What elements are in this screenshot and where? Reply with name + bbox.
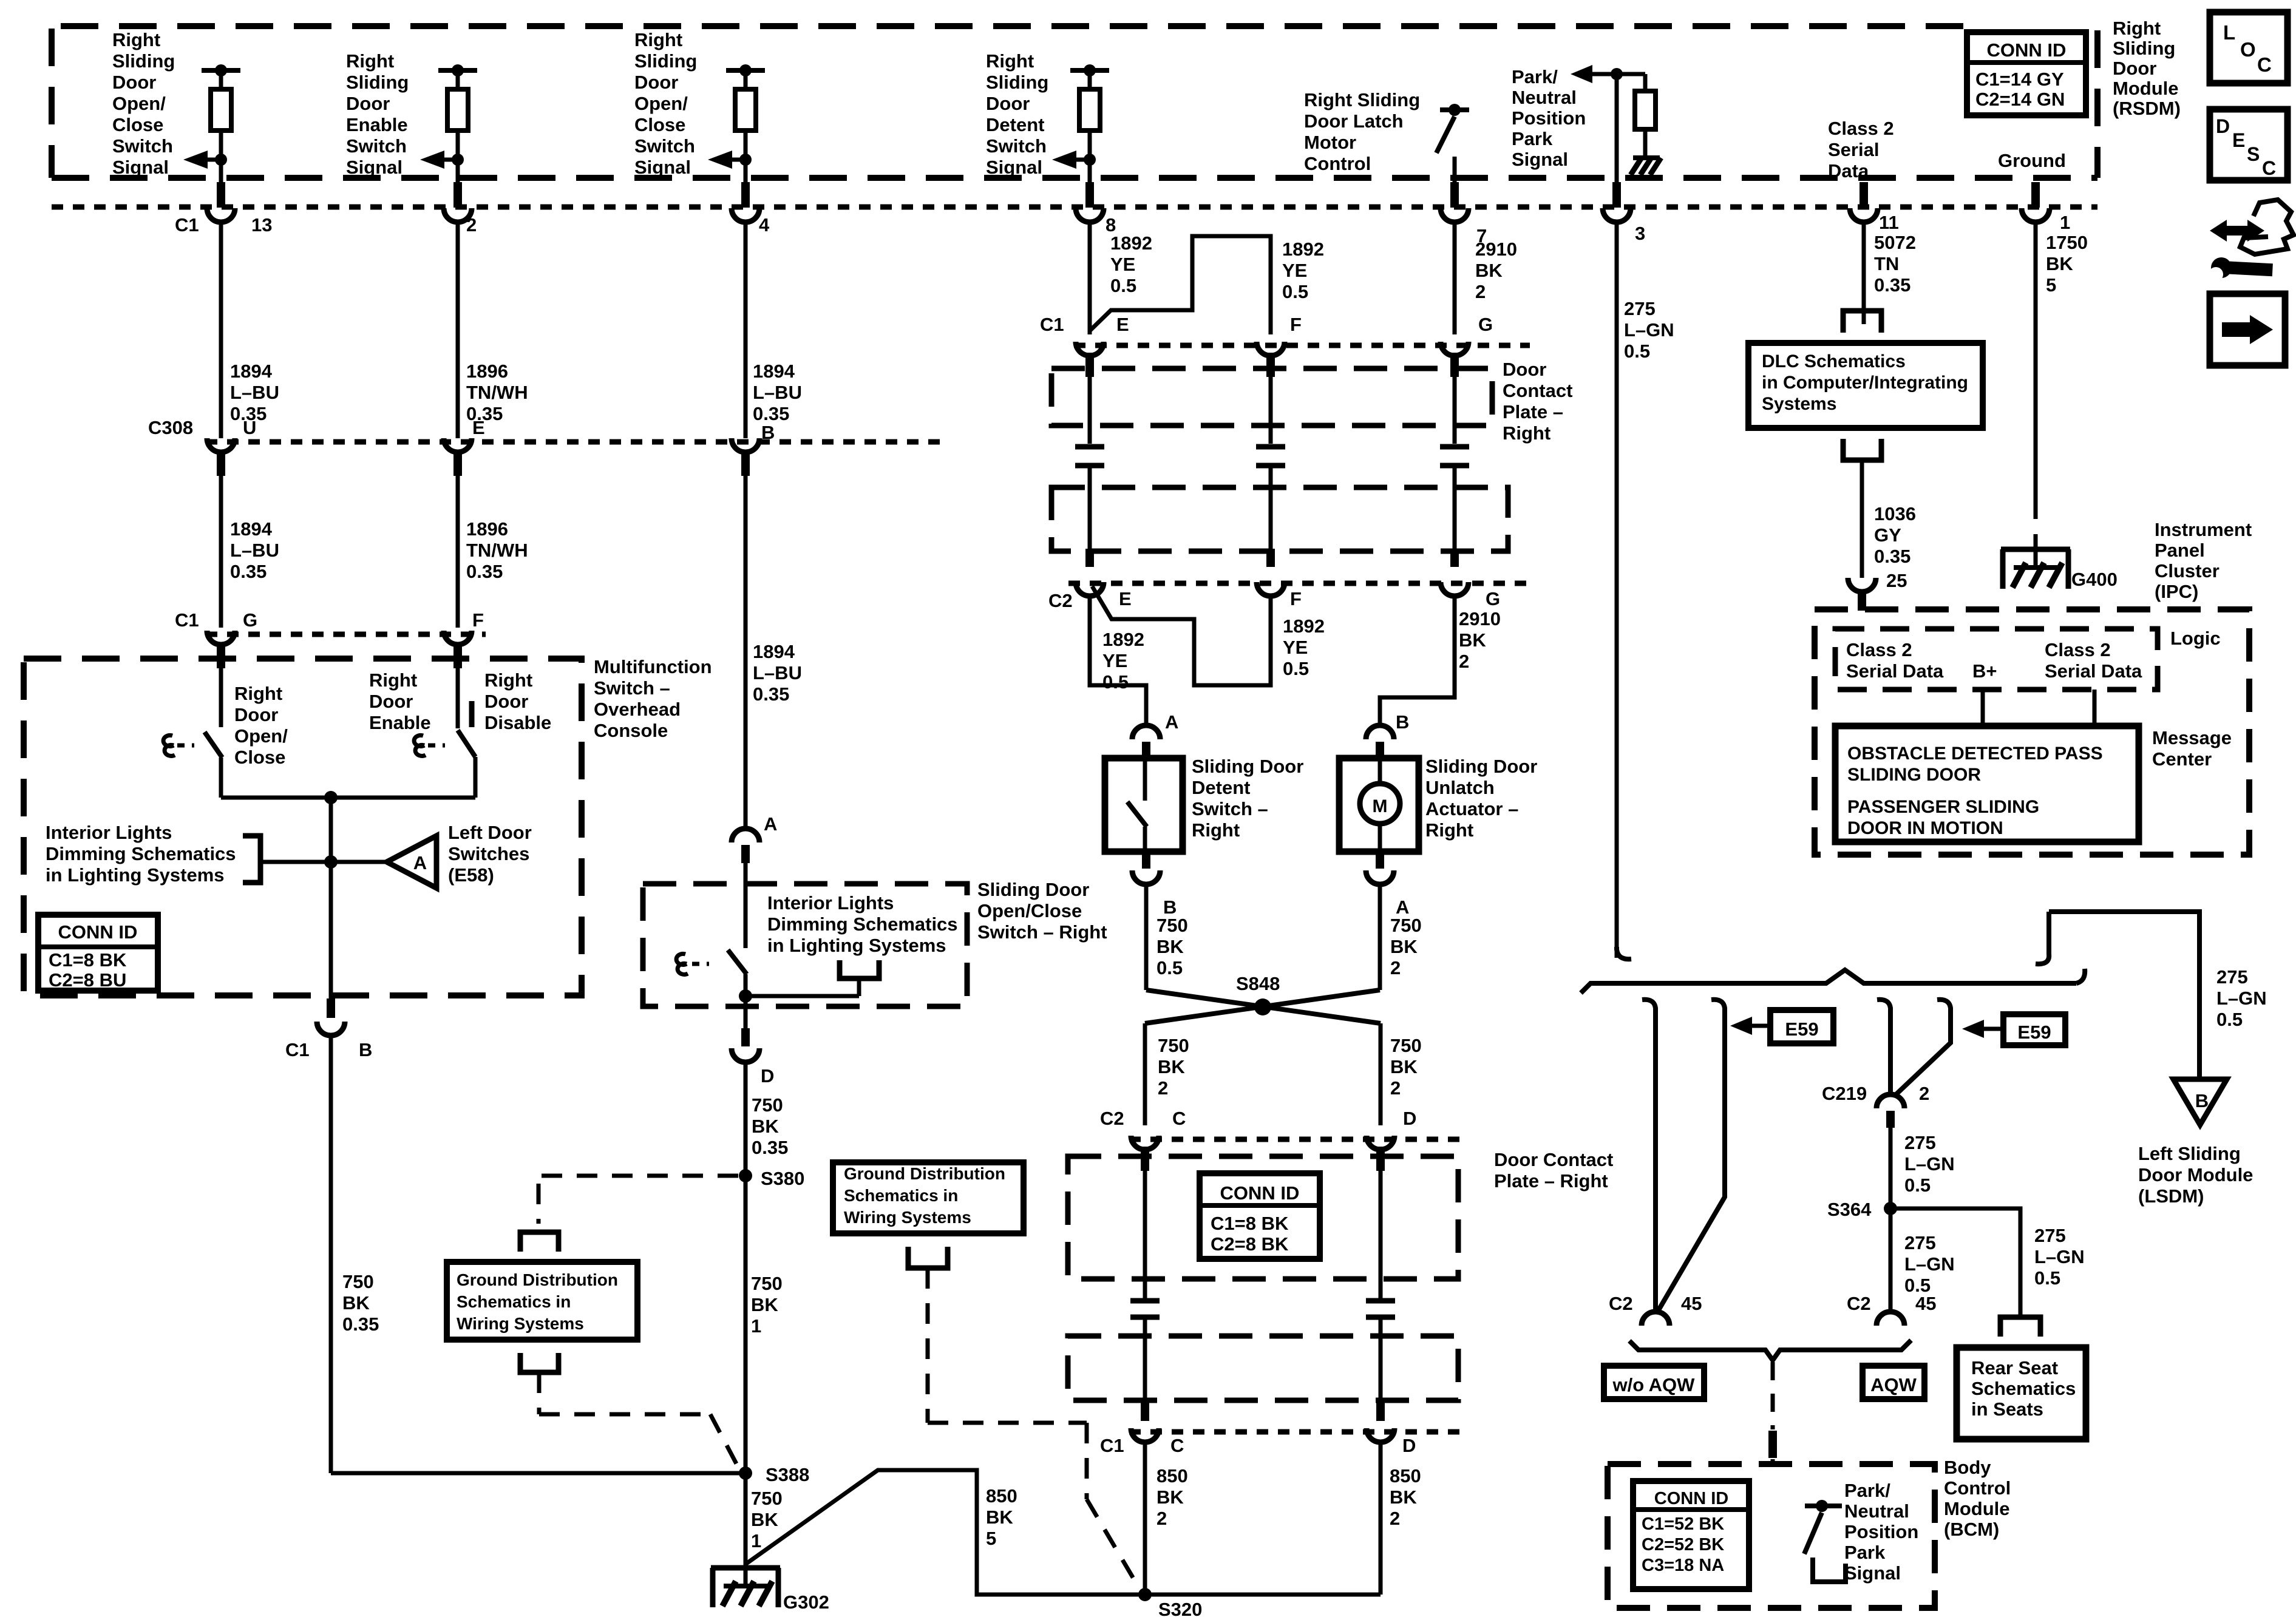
interior dimming switch inside — [728, 950, 747, 974]
svg-text:750: 750 — [1390, 1035, 1422, 1056]
svg-text:Enable: Enable — [369, 712, 431, 733]
svg-text:0.35: 0.35 — [342, 1314, 379, 1335]
svg-text:L: L — [2223, 21, 2235, 44]
resistor unit: Right Sliding Door Enable Switch Signal (pin 2) — [438, 68, 477, 73]
svg-text:0.35: 0.35 — [230, 561, 267, 582]
DESC icon box — [2210, 109, 2288, 180]
svg-text:BK: BK — [1390, 1486, 1417, 1508]
C1 connector F — [1257, 342, 1285, 356]
hand/wrench service icon — [2210, 220, 2264, 242]
Instrument Panel Cluster dashed box — [1815, 609, 2249, 855]
svg-text:Switch: Switch — [986, 135, 1047, 157]
svg-text:0.35: 0.35 — [753, 403, 789, 424]
wire 750 BK 2 — [1378, 884, 1382, 990]
svg-text:4: 4 — [759, 214, 770, 236]
svg-text:A: A — [764, 813, 777, 835]
svg-text:L–GN: L–GN — [1904, 1253, 1955, 1275]
svg-text:Close: Close — [234, 747, 285, 768]
svg-text:275: 275 — [1624, 298, 1656, 319]
svg-text:Detent: Detent — [1192, 777, 1250, 798]
C2 connector C — [1131, 1136, 1159, 1150]
wire 750 BK 0.35 down-left — [329, 1036, 333, 1473]
svg-text:BK: BK — [751, 1509, 778, 1530]
connector row C2 dotted — [1068, 581, 1530, 586]
svg-text:Right: Right — [1503, 422, 1550, 444]
svg-text:0.5: 0.5 — [1624, 341, 1650, 362]
svg-text:G302: G302 — [783, 1592, 829, 1613]
svg-text:Open/: Open/ — [112, 93, 166, 114]
svg-text:850: 850 — [986, 1485, 1017, 1507]
E59 box left — [1770, 1010, 1833, 1043]
C2/45 connector right — [1877, 1312, 1904, 1326]
C308 connector B — [732, 438, 759, 452]
svg-text:Interior Lights: Interior Lights — [46, 822, 172, 843]
C1 connector E + jog to F — [1076, 342, 1104, 356]
svg-text:YE: YE — [1282, 260, 1307, 281]
svg-text:C2: C2 — [1609, 1293, 1633, 1314]
svg-text:F: F — [1290, 314, 1302, 335]
svg-text:SLIDING DOOR: SLIDING DOOR — [1847, 765, 1981, 785]
svg-text:0.5: 0.5 — [1102, 671, 1129, 693]
wire 850 BK 2 (D) — [1379, 1442, 1383, 1595]
svg-text:2: 2 — [466, 214, 477, 236]
svg-text:L–GN: L–GN — [2034, 1246, 2085, 1267]
svg-text:Wiring Systems: Wiring Systems — [844, 1208, 971, 1227]
svg-text:1750: 1750 — [2046, 232, 2088, 253]
svg-text:0.5: 0.5 — [1282, 281, 1308, 302]
svg-text:CONN ID: CONN ID — [1654, 1489, 1728, 1508]
C2/45 connector left — [1642, 1312, 1669, 1326]
wire B+ — [1981, 690, 1985, 726]
C1 connector C — [1141, 1403, 1149, 1421]
svg-text:Rear Seat: Rear Seat — [1971, 1357, 2058, 1378]
wire 275 L-GN pin 3 — [1615, 223, 1619, 958]
svg-text:Switch: Switch — [634, 135, 695, 157]
svg-text:Body: Body — [1944, 1457, 1991, 1478]
Right Door Open/Close switch — [219, 668, 223, 727]
svg-text:2: 2 — [1390, 1077, 1401, 1099]
park/neutral position park signal switch — [1805, 1503, 1842, 1508]
svg-text:D: D — [761, 1065, 774, 1086]
CONN ID box (BCM) — [1633, 1481, 1749, 1589]
connector D — [741, 1028, 750, 1046]
svg-text:in Computer/Integrating: in Computer/Integrating — [1762, 373, 1968, 393]
svg-text:Serial Data: Serial Data — [1846, 660, 1944, 682]
svg-text:Switches: Switches — [448, 843, 529, 864]
svg-text:D: D — [1403, 1108, 1416, 1129]
connector row C1 (door contact plate upper) dotted — [1074, 343, 1530, 348]
svg-text:0.35: 0.35 — [753, 683, 789, 705]
svg-text:1894: 1894 — [230, 518, 273, 540]
svg-text:Park/: Park/ — [1844, 1480, 1890, 1501]
svg-text:1: 1 — [751, 1315, 761, 1337]
svg-text:BK: BK — [1459, 629, 1486, 651]
switch: Right Sliding Door Latch Motor Control (pin 7) — [1440, 107, 1469, 112]
w/o AQW box — [1604, 1366, 1704, 1399]
Body Control Module dashed box — [1608, 1464, 1935, 1608]
svg-text:5: 5 — [986, 1528, 996, 1549]
svg-text:Position: Position — [1844, 1521, 1918, 1542]
LSDM triangle B — [2173, 1079, 2227, 1125]
svg-text:B: B — [1396, 711, 1409, 733]
stub to w/o AQW branch — [1642, 1000, 1656, 1311]
svg-text:Contact: Contact — [1503, 380, 1572, 401]
pin 1 connector — [2031, 182, 2040, 208]
svg-text:Systems: Systems — [1762, 394, 1836, 414]
wire 1894 L-BU pin 4 — [744, 223, 748, 438]
dashed tap from S380 to ground distribution (left) — [538, 1174, 738, 1178]
svg-text:Dimming Schematics: Dimming Schematics — [46, 843, 236, 864]
svg-text:CONN ID: CONN ID — [1220, 1182, 1300, 1204]
svg-text:L–BU: L–BU — [753, 662, 802, 683]
svg-text:BK: BK — [752, 1116, 779, 1137]
svg-text:AQW: AQW — [1870, 1374, 1917, 1395]
svg-text:BK: BK — [1156, 1486, 1184, 1508]
svg-text:(E58): (E58) — [448, 864, 494, 886]
svg-text:Open/Close: Open/Close — [977, 900, 1082, 921]
svg-text:Switch: Switch — [346, 135, 407, 157]
svg-text:TN/WH: TN/WH — [466, 540, 528, 561]
C2 plug/cup — [1085, 549, 1094, 567]
svg-text:C2=8 BK: C2=8 BK — [1211, 1233, 1289, 1255]
svg-text:Right: Right — [986, 50, 1034, 72]
svg-text:Center: Center — [2152, 748, 2212, 770]
svg-text:Switch –: Switch – — [1192, 798, 1268, 819]
svg-text:Right: Right — [484, 670, 532, 691]
svg-text:275: 275 — [1904, 1232, 1936, 1253]
wire 750 BK 0.35 — [744, 1062, 748, 1473]
dashed drop to BCM — [1771, 1362, 1775, 1429]
connector C219 pin 2 — [1877, 1094, 1904, 1108]
off-page bracket to DLC schematics — [1843, 311, 1881, 333]
C1 connector G — [207, 631, 235, 645]
svg-text:BK: BK — [1158, 1056, 1185, 1077]
svg-text:Schematics: Schematics — [1971, 1378, 2076, 1399]
svg-text:0.5: 0.5 — [1283, 658, 1309, 679]
wire 1892 YE pin 8 — [1088, 223, 1092, 334]
svg-text:Right: Right — [2113, 18, 2161, 39]
svg-text:L–BU: L–BU — [230, 540, 279, 561]
svg-text:750: 750 — [1158, 1035, 1189, 1056]
wire 1896 TN/WH (middle) — [456, 476, 460, 628]
svg-text:850: 850 — [1156, 1465, 1188, 1486]
C2 plug/cup — [1450, 549, 1459, 567]
svg-text:Park/: Park/ — [1512, 66, 1558, 87]
Left Door Switches (E58) triangle — [331, 860, 387, 864]
svg-text:2910: 2910 — [1459, 608, 1501, 629]
svg-text:1036: 1036 — [1874, 503, 1916, 524]
svg-text:2: 2 — [1156, 1508, 1167, 1529]
svg-text:Right: Right — [234, 683, 282, 704]
svg-text:Sliding: Sliding — [634, 50, 697, 72]
svg-text:Door Module: Door Module — [2138, 1164, 2253, 1185]
svg-text:E59: E59 — [1785, 1019, 1818, 1040]
svg-text:2: 2 — [1459, 651, 1469, 672]
svg-text:3: 3 — [1635, 223, 1645, 244]
svg-text:B: B — [2195, 1090, 2209, 1111]
wire 2910 BK pin 7 — [1453, 223, 1457, 334]
svg-text:Class 2: Class 2 — [1846, 639, 1912, 660]
svg-text:2: 2 — [1158, 1077, 1168, 1099]
connector A (detent switch) — [1132, 725, 1160, 739]
Ground Distribution Schematics box (middle) — [833, 1162, 1024, 1233]
svg-text:750: 750 — [751, 1488, 783, 1509]
svg-text:Ground: Ground — [1998, 150, 2066, 171]
svg-text:E59: E59 — [2017, 1022, 2051, 1043]
resistor unit: Right Sliding Door Open/Close Switch Signal (pin 13) — [202, 68, 240, 73]
Right Door Disable label — [469, 701, 475, 727]
1892 YE jog below E/F — [1092, 586, 1271, 685]
Interior Lights Dimming bracket (left) — [243, 836, 260, 883]
svg-text:Panel: Panel — [2155, 540, 2205, 561]
svg-text:Switch: Switch — [112, 135, 173, 157]
svg-text:C1: C1 — [175, 609, 199, 631]
svg-text:(RSDM): (RSDM) — [2113, 98, 2181, 119]
lower plate bars — [1143, 1171, 1147, 1298]
svg-text:F: F — [472, 609, 484, 631]
svg-text:Serial: Serial — [1828, 139, 1879, 160]
svg-text:Door: Door — [484, 691, 528, 712]
svg-text:G: G — [1486, 588, 1500, 609]
svg-text:1894: 1894 — [230, 361, 273, 382]
Right Door Enable switch — [456, 668, 460, 728]
svg-text:Close: Close — [112, 114, 163, 135]
svg-text:D: D — [2216, 115, 2230, 137]
svg-text:C308: C308 — [148, 417, 193, 438]
C308 connector E — [444, 438, 472, 452]
svg-text:750: 750 — [1390, 915, 1422, 936]
svg-text:Door: Door — [1503, 359, 1546, 380]
svg-text:C: C — [2262, 157, 2276, 179]
svg-text:BK: BK — [2046, 253, 2073, 274]
svg-text:Signal: Signal — [1844, 1562, 1901, 1584]
svg-text:2: 2 — [1390, 1508, 1400, 1529]
branch to rear seat schematics — [1890, 1209, 2020, 1317]
DLC Schematics box — [1748, 343, 1983, 428]
svg-text:C219: C219 — [1822, 1083, 1867, 1104]
svg-text:Door Latch: Door Latch — [1304, 110, 1404, 132]
resistor unit: Right Sliding Door Detent Switch Signal (pin 8) — [1070, 68, 1109, 73]
splice S848 crossover — [1146, 990, 1381, 1023]
dashed path to S320 — [926, 1268, 930, 1423]
Rear Seat Schematics box — [1957, 1347, 2086, 1439]
svg-text:Neutral: Neutral — [1844, 1500, 1909, 1522]
svg-text:Left Sliding: Left Sliding — [2138, 1143, 2241, 1164]
connector row C308 dotted — [206, 439, 947, 445]
C1 connector F — [444, 631, 472, 645]
svg-text:Multifunction: Multifunction — [594, 656, 712, 677]
svg-text:Dimming Schematics: Dimming Schematics — [767, 914, 958, 935]
svg-text:Sliding: Sliding — [346, 72, 409, 93]
svg-text:Ground Distribution: Ground Distribution — [457, 1270, 618, 1289]
stub via E59 diagonal — [1894, 1000, 1951, 1096]
svg-text:13: 13 — [251, 214, 272, 236]
svg-text:11: 11 — [1879, 212, 1899, 233]
connector B (detent switch) — [1142, 852, 1150, 869]
Ground Distribution Schematics box (left) — [447, 1262, 637, 1340]
svg-text:1896: 1896 — [466, 361, 508, 382]
svg-text:750: 750 — [751, 1273, 783, 1294]
wire 1894 L-BU (to overhead console switch) — [744, 476, 748, 827]
svg-text:C2: C2 — [1847, 1293, 1871, 1314]
svg-text:O: O — [2240, 38, 2256, 61]
svg-text:L–GN: L–GN — [1904, 1153, 1955, 1175]
svg-text:DLC Schematics: DLC Schematics — [1762, 351, 1906, 371]
splice S380 — [739, 1169, 752, 1182]
svg-text:Class 2: Class 2 — [2045, 639, 2111, 660]
svg-text:C3=18 NA: C3=18 NA — [1642, 1556, 1724, 1575]
connector A (unlatch actuator) — [1376, 852, 1384, 869]
svg-text:Door: Door — [112, 72, 156, 93]
svg-text:Switch – Right: Switch – Right — [977, 921, 1107, 943]
connector B (unlatch actuator) — [1366, 725, 1394, 739]
svg-text:Door: Door — [986, 93, 1030, 114]
svg-text:750: 750 — [1156, 915, 1188, 936]
Door Contact Plate upper box B dashed — [1051, 487, 1508, 551]
svg-text:C: C — [2257, 53, 2272, 76]
svg-text:BK: BK — [1475, 260, 1503, 281]
svg-text:L–GN: L–GN — [1624, 319, 1674, 341]
svg-text:Door: Door — [346, 93, 390, 114]
svg-text:in Seats: in Seats — [1971, 1398, 2043, 1420]
svg-text:0.5: 0.5 — [1110, 275, 1136, 296]
svg-text:Enable: Enable — [346, 114, 408, 135]
svg-text:G400: G400 — [2071, 569, 2118, 590]
svg-text:Sliding: Sliding — [986, 72, 1048, 93]
Door Contact Plate lower box A dashed — [1068, 1156, 1458, 1279]
svg-text:Cluster: Cluster — [2155, 560, 2220, 581]
svg-text:Ground Distribution: Ground Distribution — [844, 1164, 1005, 1183]
wire 850 BK 5 to G302 — [746, 1470, 1145, 1595]
svg-text:Door: Door — [2113, 58, 2156, 79]
svg-text:0.35: 0.35 — [1874, 274, 1911, 296]
svg-text:Signal: Signal — [634, 157, 691, 178]
CONN ID box (RSDM) C1=14 GY C2=14 GN — [1967, 32, 2086, 115]
C2 plug/cup — [1266, 549, 1275, 567]
svg-text:Logic: Logic — [2170, 628, 2221, 649]
svg-text:w/o AQW: w/o AQW — [1612, 1374, 1696, 1395]
svg-text:S388: S388 — [766, 1464, 809, 1485]
bracket below DLC box — [1843, 439, 1881, 460]
svg-text:S848: S848 — [1236, 973, 1280, 994]
svg-text:CONN ID: CONN ID — [58, 921, 138, 943]
svg-text:S380: S380 — [761, 1168, 804, 1189]
svg-text:Right: Right — [1425, 819, 1473, 841]
svg-text:C2=52 BK: C2=52 BK — [1642, 1535, 1724, 1554]
svg-text:Signal: Signal — [1512, 149, 1568, 170]
svg-text:0.35: 0.35 — [752, 1137, 788, 1158]
svg-text:TN: TN — [1874, 253, 1899, 274]
svg-text:1894: 1894 — [753, 361, 795, 382]
svg-text:1894: 1894 — [753, 641, 795, 662]
svg-text:BK: BK — [1390, 936, 1418, 957]
svg-text:Right: Right — [346, 50, 394, 72]
svg-text:Neutral: Neutral — [1512, 87, 1577, 108]
stub to C219 — [1877, 1000, 1890, 1094]
svg-text:750: 750 — [342, 1271, 374, 1292]
svg-text:C1: C1 — [1100, 1435, 1124, 1456]
svg-text:L–GN: L–GN — [2216, 988, 2267, 1009]
svg-text:C1: C1 — [1040, 314, 1064, 335]
svg-text:Door: Door — [234, 704, 278, 725]
svg-text:0.35: 0.35 — [1874, 546, 1911, 567]
wire 1896 TN/WH pin 2 — [456, 223, 460, 438]
Sliding Door Unlatch Actuator - Right box with motor — [1339, 758, 1419, 852]
svg-text:E: E — [1119, 588, 1132, 609]
connector row C2 (lower plate) dotted — [1129, 1137, 1469, 1142]
LOC icon box — [2210, 12, 2288, 83]
svg-text:45: 45 — [1915, 1293, 1936, 1314]
svg-text:OBSTACLE DETECTED PASS: OBSTACLE DETECTED PASS — [1847, 744, 2103, 764]
svg-text:Control: Control — [1944, 1477, 2011, 1499]
svg-text:Console: Console — [594, 720, 668, 741]
svg-text:(BCM): (BCM) — [1944, 1519, 1999, 1540]
svg-text:1892: 1892 — [1110, 232, 1152, 254]
svg-text:Sliding: Sliding — [112, 50, 175, 72]
wire 850 BK 2 (C) — [1143, 1442, 1147, 1595]
svg-text:Sliding: Sliding — [2113, 38, 2175, 59]
svg-text:Detent: Detent — [986, 114, 1044, 135]
svg-text:S: S — [2247, 143, 2260, 165]
svg-text:C2: C2 — [1048, 590, 1073, 611]
svg-text:1896: 1896 — [466, 518, 508, 540]
svg-text:2: 2 — [1475, 281, 1486, 302]
svg-text:Position: Position — [1512, 107, 1586, 129]
svg-text:BK: BK — [1390, 1056, 1418, 1077]
svg-text:Unlatch: Unlatch — [1425, 777, 1495, 798]
connector A above sliding door open/close switch — [732, 829, 759, 842]
svg-text:B: B — [761, 422, 775, 443]
svg-text:G: G — [1478, 314, 1493, 335]
Door Contact Plate upper box A dashed — [1051, 368, 1492, 425]
svg-text:Plate – Right: Plate – Right — [1494, 1170, 1608, 1192]
svg-text:in Lighting Systems: in Lighting Systems — [46, 864, 225, 886]
connector row C1 (RSDM) dotted line — [52, 205, 2097, 210]
svg-text:Class 2: Class 2 — [1828, 118, 1894, 139]
svg-text:BK: BK — [986, 1507, 1013, 1528]
svg-text:Signal: Signal — [112, 157, 169, 178]
resistor unit: Right Sliding Door Open/Close Switch Signal (pin 4) — [726, 68, 765, 73]
svg-text:CONN ID: CONN ID — [1987, 39, 2067, 61]
svg-text:25: 25 — [1886, 570, 1907, 591]
svg-text:0.5: 0.5 — [2216, 1009, 2243, 1030]
park/neutral position park signal arrow + resistor to ground (pin 3) — [1617, 72, 1645, 76]
AQW box — [1863, 1366, 1924, 1399]
svg-text:PASSENGER SLIDING: PASSENGER SLIDING — [1847, 797, 2039, 817]
svg-text:0.35: 0.35 — [466, 561, 503, 582]
wire 750 BK 2 (C) — [1143, 1023, 1147, 1125]
wire 1894 L-BU pin 13 — [219, 223, 223, 438]
svg-text:E: E — [472, 417, 485, 438]
svg-text:Signal: Signal — [346, 157, 402, 178]
svg-text:YE: YE — [1110, 254, 1135, 275]
svg-text:(IPC): (IPC) — [2155, 581, 2198, 602]
svg-text:1892: 1892 — [1283, 615, 1325, 637]
loop to LSDM — [2049, 912, 2199, 1079]
wire 275 L-GN below C219 — [1889, 1128, 1893, 1311]
wire 750 BK 0.5 — [1144, 884, 1149, 990]
svg-text:G: G — [243, 609, 257, 631]
svg-text:C1=8 BK: C1=8 BK — [1211, 1213, 1289, 1234]
svg-text:E: E — [1116, 314, 1129, 335]
svg-text:Motor: Motor — [1304, 132, 1356, 153]
svg-text:C1: C1 — [175, 214, 199, 236]
splice S320 — [1145, 1593, 1381, 1597]
svg-text:B: B — [359, 1039, 372, 1060]
splice S388 — [739, 1466, 752, 1480]
svg-text:275: 275 — [2216, 966, 2248, 988]
svg-text:Module: Module — [2113, 78, 2179, 99]
